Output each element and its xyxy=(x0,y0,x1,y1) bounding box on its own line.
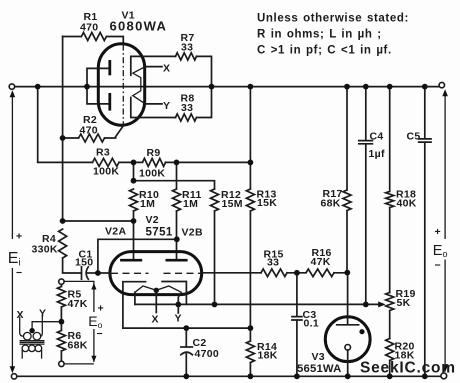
svg-text:0.1: 0.1 xyxy=(304,318,320,330)
resistor R12 xyxy=(211,189,219,304)
resistor R20 xyxy=(386,339,394,377)
label R12 15M xyxy=(221,189,243,210)
resistor R9 xyxy=(134,158,251,166)
wire: V1 plate leads to bus riser xyxy=(87,68,109,104)
wire: top supply bus xyxy=(15,86,439,88)
node Ei input terminal (top left) xyxy=(9,84,14,89)
V2B plate bar xyxy=(166,259,188,262)
svg-text:−: − xyxy=(16,267,22,279)
svg-text:−: − xyxy=(97,328,103,340)
V2 heater xyxy=(135,286,181,298)
svg-text:Y: Y xyxy=(163,100,170,112)
resistor R2 xyxy=(63,134,105,142)
svg-text:V3: V3 xyxy=(312,351,325,363)
label R9 100K xyxy=(139,147,165,180)
V3 anode bar and stem xyxy=(337,273,359,325)
svg-text:+: + xyxy=(16,231,22,243)
svg-text:V2: V2 xyxy=(146,214,159,226)
wire: V1 grid to R2 diagonal xyxy=(105,126,124,138)
svg-text:4700: 4700 xyxy=(195,348,220,360)
svg-text:Y: Y xyxy=(39,308,46,320)
wire: V2A plate row xyxy=(63,221,134,259)
label R7 33 xyxy=(181,32,195,54)
label R8 33 xyxy=(181,93,195,115)
label C4 1uf xyxy=(369,131,385,161)
label C2 4700 xyxy=(193,337,220,360)
resistor R17 xyxy=(343,87,351,273)
label C1 150 xyxy=(75,249,93,269)
capacitor C4 xyxy=(359,87,373,305)
R19 wiper arrow xyxy=(378,301,385,307)
svg-text:V2A: V2A xyxy=(105,226,126,238)
svg-text:1µf: 1µf xyxy=(369,148,385,160)
svg-text:SeekIC.com: SeekIC.com xyxy=(360,360,456,377)
svg-text:18K: 18K xyxy=(258,350,278,362)
resistor R14 xyxy=(246,328,254,376)
svg-text:V2B: V2B xyxy=(182,227,203,239)
V1 plate bar (section B) xyxy=(108,93,111,111)
wire: bus to R3 xyxy=(38,87,93,163)
capacitor C5 xyxy=(419,87,431,377)
svg-text:33: 33 xyxy=(181,102,193,114)
node terminal (bottom left) xyxy=(11,374,16,379)
svg-text:15M: 15M xyxy=(222,198,243,210)
capacitor C2 xyxy=(181,328,193,376)
svg-text:100K: 100K xyxy=(139,168,165,180)
label V1 6080WA xyxy=(110,10,168,34)
wire: X stub below V2 xyxy=(155,290,157,312)
svg-text:470: 470 xyxy=(80,125,98,137)
note: units text block xyxy=(257,13,409,57)
resistor R5 xyxy=(57,284,65,321)
V1 heater xyxy=(133,67,146,104)
svg-text:100K: 100K xyxy=(93,166,119,178)
resistor R4 xyxy=(59,229,82,273)
svg-text:5751: 5751 xyxy=(146,227,173,239)
svg-text:R in ohms; L in µh ;: R in ohms; L in µh ; xyxy=(257,29,382,41)
V3 cathode terminal xyxy=(345,345,351,351)
label V2A V2 5751 V2B xyxy=(105,214,203,239)
label + Eo - (right) xyxy=(433,226,448,272)
label + Ei - xyxy=(8,231,23,280)
wire: Eo measurement line (right) xyxy=(442,89,448,372)
svg-text:1M: 1M xyxy=(140,198,155,210)
label R16 47K xyxy=(311,247,332,268)
resistor R3 xyxy=(93,158,134,166)
label R2 470 xyxy=(80,114,98,137)
svg-text:15K: 15K xyxy=(257,197,277,209)
wire: X stub from V1 xyxy=(145,66,162,68)
wire: Y stub from V1 xyxy=(145,103,162,105)
label R10 1M xyxy=(139,189,159,210)
resistor R13 xyxy=(246,87,254,329)
resistor R1 xyxy=(63,33,124,45)
label R17 68K xyxy=(321,188,343,210)
V2A cathode bar with hook xyxy=(123,282,146,328)
svg-text:Unless otherwise stated:: Unless otherwise stated: xyxy=(257,13,409,25)
tube V3 envelope xyxy=(325,317,370,362)
svg-text:+: + xyxy=(435,226,441,238)
wire: V3 cathode to bus xyxy=(347,350,349,376)
svg-text:68K: 68K xyxy=(321,198,341,210)
label R3 100K xyxy=(93,147,119,178)
capacitor C3 xyxy=(292,273,302,377)
svg-text:R9: R9 xyxy=(147,147,161,159)
svg-text:470: 470 xyxy=(80,22,98,34)
label R4 330K xyxy=(32,233,58,256)
svg-text:68K: 68K xyxy=(68,340,88,352)
svg-text:33: 33 xyxy=(181,42,193,54)
label R14 18K xyxy=(257,341,278,362)
svg-text:1M: 1M xyxy=(183,198,198,210)
wire: heater left foot drop xyxy=(134,292,136,304)
V3 gas dot xyxy=(359,329,364,334)
label R6 68K xyxy=(68,330,88,352)
svg-text:40K: 40K xyxy=(397,198,417,210)
V1 grid line (dash-dot) xyxy=(122,45,124,126)
resistor R7 xyxy=(176,53,212,87)
label V3 5651WA xyxy=(297,351,342,375)
resistor R6 xyxy=(57,322,65,362)
label R20 18K xyxy=(395,341,415,362)
wire: cathode reference line to R19 wiper xyxy=(135,303,379,305)
label R5 47K xyxy=(68,289,88,311)
svg-text:5K: 5K xyxy=(397,297,411,309)
svg-text:C5: C5 xyxy=(407,131,421,143)
V2A plate bar xyxy=(120,259,142,262)
capacitor C1 xyxy=(82,267,98,279)
wire: second row to R12 xyxy=(134,162,215,189)
wire: grid riser joining R1 R2 R4 xyxy=(62,37,64,222)
transformer T1 xyxy=(20,315,59,359)
V2A grid (dashed) xyxy=(98,272,111,274)
label R15 33 xyxy=(264,249,284,269)
resistor R19 (pot) xyxy=(386,293,394,339)
wire: Y stub below V2 xyxy=(177,298,179,314)
node terminal (bottom right) xyxy=(441,373,447,379)
wire: Eo bracket (middle) xyxy=(64,281,96,364)
svg-text:47K: 47K xyxy=(311,256,331,268)
svg-text:+: + xyxy=(98,303,104,315)
terminal: R5 top jack xyxy=(59,279,64,284)
V2B grid (dashed) xyxy=(164,272,201,274)
resistor R16 xyxy=(297,269,347,277)
wire: C1 riser to V2B plate row xyxy=(98,239,177,273)
terminal: R6 bottom jack xyxy=(59,361,64,366)
wire: lower feedback row to C2 and R14 xyxy=(123,327,250,329)
svg-text:X: X xyxy=(163,63,170,75)
resistor R8 xyxy=(176,87,212,122)
svg-text:330K: 330K xyxy=(32,244,58,256)
label R19 5K xyxy=(396,288,416,309)
label R13 15K xyxy=(257,189,278,210)
tube V1 envelope xyxy=(98,44,144,125)
svg-text:33: 33 xyxy=(267,257,279,269)
label R18 40K xyxy=(396,189,417,210)
resistor R11 xyxy=(173,162,181,239)
svg-text:5651WA: 5651WA xyxy=(297,363,342,375)
label + Eo - (middle) xyxy=(88,303,104,341)
label C3 0.1 xyxy=(303,309,320,330)
resistor R10 xyxy=(130,189,138,221)
tube V2 envelope xyxy=(110,252,202,295)
label R11 1M xyxy=(182,189,202,210)
wire: V2B plate stem xyxy=(176,239,178,259)
svg-text:150: 150 xyxy=(75,257,93,269)
svg-text:−: − xyxy=(435,260,441,272)
resistor R18 xyxy=(386,87,394,293)
node Eo output terminal (top right) xyxy=(439,82,444,87)
resistor R15 xyxy=(261,269,297,277)
wire: Ei measurement line (left) xyxy=(10,90,16,373)
V2B cathode bar with hook xyxy=(162,282,186,305)
svg-text:C >1 in pf; C <1 in µf.: C >1 in pf; C <1 in µf. xyxy=(257,45,392,57)
V1 cathode B with lead to R8 xyxy=(131,98,176,118)
svg-text:C4: C4 xyxy=(370,131,384,143)
svg-text:X: X xyxy=(17,309,24,321)
svg-text:6080WA: 6080WA xyxy=(110,19,168,34)
label R1 470 xyxy=(80,11,98,34)
V1 cathode A with lead to R7 xyxy=(131,56,176,75)
svg-text:R3: R3 xyxy=(96,147,110,159)
V1 plate bar (section A) xyxy=(108,60,111,75)
svg-text:Y: Y xyxy=(175,313,182,325)
svg-text:X: X xyxy=(152,314,159,326)
wire: bottom return bus xyxy=(17,375,440,377)
svg-text:47K: 47K xyxy=(68,298,88,310)
